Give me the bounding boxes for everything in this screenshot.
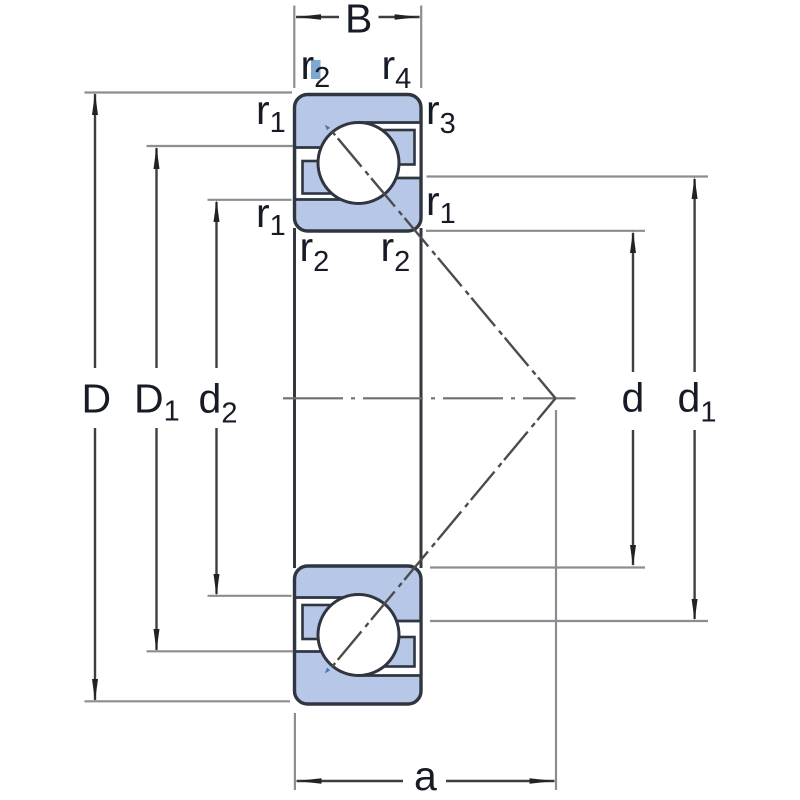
bottom bearing left shoulder block <box>303 605 349 639</box>
top bearing outer-ring bottom-right edge <box>359 121 421 124</box>
D1 dimension line bottom <box>155 428 157 650</box>
svg-text:B: B <box>345 0 372 42</box>
top bearing right shoulder block <box>368 130 415 165</box>
D1 arrow top <box>154 147 160 169</box>
D1 extension line bottom <box>147 650 294 652</box>
bottom bearing ball <box>318 595 399 676</box>
top contact angle line (dash-dot) <box>332 131 556 398</box>
B arrow right <box>395 14 420 20</box>
a arrow left <box>297 778 322 784</box>
a extension line right (from apex) <box>555 410 557 790</box>
B dimension line right segment <box>379 16 420 18</box>
bottom bearing inner-ring bottom-right edge <box>359 620 421 623</box>
B dimension line left segment <box>296 16 339 18</box>
top bearing left shoulder block <box>303 161 349 194</box>
D1 dimension line top <box>155 148 157 368</box>
d dimension line bottom <box>632 430 634 565</box>
d2 extension line top <box>208 199 292 201</box>
top bearing inner-ring top-right edge <box>359 177 421 180</box>
svg-text:D: D <box>82 376 112 422</box>
D extension line bottom <box>85 700 291 702</box>
svg-text:a: a <box>414 753 437 799</box>
horizontal centerline (axis) <box>283 397 576 399</box>
a dimension line left segment <box>297 780 404 782</box>
d2 arrow bottom <box>214 574 220 596</box>
d1 dimension line top <box>693 179 695 372</box>
wire right face line between bearings <box>420 228 423 568</box>
bottom bearing inner-ring bottom-left edge <box>295 596 359 599</box>
d extension line top <box>426 230 645 232</box>
top bearing outer-ring bottom-left edge <box>295 146 359 149</box>
D1 extension line top <box>147 145 294 147</box>
bottom bearing outer-ring top-left edge <box>295 650 359 653</box>
D1 arrow bottom <box>154 629 160 651</box>
B extension line left <box>293 6 295 89</box>
d1 dimension line bottom <box>693 430 695 619</box>
a extension line left <box>294 713 296 790</box>
d2 dimension line top <box>215 202 217 368</box>
top bearing ball <box>318 123 399 204</box>
d1 extension line bottom <box>430 620 708 622</box>
B arrow left <box>296 14 321 20</box>
d1 arrow bottom <box>692 599 698 621</box>
d1 extension line top <box>427 175 709 177</box>
D extension line top <box>85 91 293 93</box>
top bearing left gap (white) <box>297 148 360 199</box>
d extension line bottom <box>430 566 645 568</box>
D dimension line top <box>94 94 96 368</box>
d arrow bottom <box>630 545 636 567</box>
D dimension line bottom <box>94 428 96 700</box>
a arrow right <box>530 778 555 784</box>
top bearing inner-ring top-left edge <box>295 198 359 201</box>
B extension line right <box>420 6 422 89</box>
d1 arrow top <box>692 177 698 199</box>
top bearing outer rounded body <box>295 95 422 232</box>
bottom bearing left gap (white) <box>297 599 360 651</box>
d arrow top <box>630 231 636 253</box>
top bearing right gap (white) <box>359 124 420 177</box>
top contact line blue tip <box>325 125 330 131</box>
bottom bearing right shoulder block <box>368 637 415 667</box>
bottom contact line blue tip <box>325 668 330 674</box>
d2 extension line bottom <box>208 595 292 597</box>
r2 highlight blob <box>311 60 321 79</box>
a dimension line right segment <box>446 780 555 782</box>
bottom contact angle line (dash-dot) <box>332 398 556 667</box>
D arrow bottom <box>92 679 98 701</box>
D arrow top <box>92 93 98 115</box>
bottom bearing right gap (white) <box>359 623 420 675</box>
wire left face line between bearings <box>293 228 296 568</box>
svg-text:d: d <box>622 375 645 421</box>
d dimension line top <box>632 233 634 372</box>
d2 dimension line bottom <box>215 428 217 594</box>
bottom bearing outer rounded body <box>295 566 422 704</box>
d2 arrow top <box>214 200 220 222</box>
bottom bearing outer-ring top-right edge <box>359 674 421 677</box>
